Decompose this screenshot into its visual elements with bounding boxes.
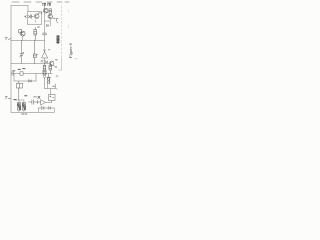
- capacitor C5: [41, 60, 43, 62]
- capacitor C7: [29, 100, 41, 105]
- box F1: [16, 81, 22, 100]
- capacitor C3: [33, 41, 38, 64]
- label column dark: [57, 36, 59, 43]
- capacitor C1: [29, 15, 33, 19]
- label 86: [14, 98, 16, 100]
- label 4: [5, 97, 11, 99]
- resistor R3: [49, 64, 52, 74]
- crystal Y2: [47, 74, 51, 85]
- wire dashed right: [61, 6, 63, 58]
- resistor R1: [34, 27, 37, 40]
- capacitor C6: [12, 72, 14, 76]
- wire right spine: [44, 6, 46, 64]
- diode D1: [46, 25, 48, 27]
- svg-text:Figure 6: Figure 6: [68, 42, 73, 59]
- wire Q4 stub: [22, 36, 24, 40]
- label 72: [48, 3, 51, 6]
- transformer T1: [14, 100, 26, 112]
- wire rail C y73: [11, 73, 52, 75]
- capacitor C4: [42, 33, 46, 35]
- wire amp out: [45, 101, 52, 103]
- diode D7: [48, 107, 54, 113]
- node diamond: [56, 75, 58, 77]
- wire xtal rail: [45, 84, 56, 95]
- wire top: [11, 6, 28, 12]
- label 88: [25, 95, 27, 97]
- diode D2: [45, 61, 47, 63]
- label 74: [53, 17, 55, 19]
- label 76: [38, 26, 40, 28]
- label 80: [18, 68, 20, 70]
- node cross: [41, 12, 43, 14]
- label 90: [34, 96, 40, 98]
- diode D5: [29, 80, 32, 82]
- label 6: [56, 19, 58, 23]
- label 98: [56, 88, 57, 90]
- label faint: [75, 58, 77, 60]
- label 9: [48, 49, 50, 51]
- transistor Q3: [34, 12, 39, 22]
- wire branch Q2: [45, 19, 51, 26]
- transistor Q5: [49, 60, 57, 68]
- op-amp A1: [42, 52, 48, 58]
- node arrow on spine: [44, 50, 46, 52]
- transistor Q2: [48, 14, 52, 18]
- wire left bus: [10, 6, 12, 113]
- fold marks: [67, 10, 69, 27]
- resistor R4: [49, 9, 52, 14]
- resistor R2: [43, 64, 46, 71]
- label 7: [5, 38, 11, 40]
- label 82: [23, 68, 25, 70]
- wire rail B y63: [11, 63, 49, 65]
- wire subrail y81: [14, 74, 36, 82]
- label 70: [43, 3, 46, 6]
- box U2: [49, 95, 56, 101]
- wire bottom bus: [11, 111, 54, 113]
- box U1: [28, 12, 42, 25]
- op-amp A2: [41, 100, 46, 105]
- wire rail A y40: [11, 40, 45, 42]
- diode D4: [20, 72, 23, 75]
- connector P1: [24, 16, 29, 18]
- transistor Q4: [19, 30, 25, 36]
- label 96: [53, 85, 55, 87]
- header text dashes: [12, 1, 69, 3]
- label 78: [13, 70, 15, 72]
- capacitor C2: [20, 41, 24, 64]
- diode D3: [43, 76, 46, 84]
- diode D6: [39, 107, 49, 113]
- label 150: [22, 113, 27, 115]
- transistor Q1: [43, 8, 48, 13]
- connector J1: [43, 70, 46, 74]
